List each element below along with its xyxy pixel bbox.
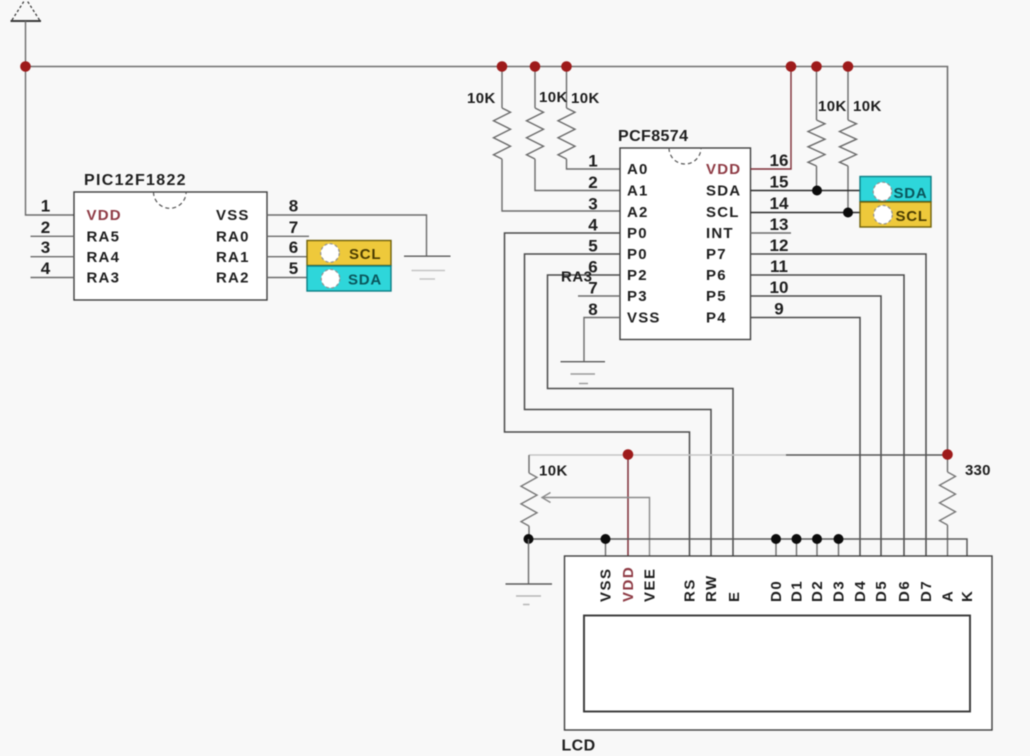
svg-text:P5: P5: [706, 288, 727, 305]
svg-text:P6: P6: [706, 267, 727, 284]
svg-text:A: A: [940, 590, 957, 602]
svg-text:3: 3: [41, 238, 50, 257]
svg-text:D0: D0: [768, 580, 785, 602]
svg-text:PCF8574: PCF8574: [618, 128, 688, 145]
svg-text:SDA: SDA: [706, 183, 741, 200]
svg-text:12: 12: [770, 236, 789, 255]
svg-text:RS: RS: [682, 578, 699, 602]
svg-text:VSS: VSS: [598, 567, 615, 602]
svg-text:RA5: RA5: [87, 229, 121, 246]
svg-text:10K: 10K: [571, 90, 600, 107]
svg-text:11: 11: [770, 257, 788, 276]
svg-text:14: 14: [770, 194, 789, 213]
svg-text:15: 15: [770, 173, 789, 192]
svg-text:A1: A1: [627, 183, 649, 200]
svg-text:INT: INT: [706, 225, 734, 242]
svg-text:2: 2: [588, 173, 597, 192]
svg-text:D3: D3: [831, 580, 848, 602]
svg-text:VDD: VDD: [706, 161, 741, 178]
svg-text:10K: 10K: [539, 463, 568, 480]
svg-text:5: 5: [289, 259, 298, 278]
svg-text:4: 4: [588, 216, 598, 235]
svg-text:VSS: VSS: [216, 207, 250, 224]
svg-text:P0: P0: [627, 246, 648, 263]
svg-text:8: 8: [588, 300, 597, 319]
svg-text:5: 5: [588, 237, 597, 256]
svg-text:10K: 10K: [467, 90, 496, 107]
svg-text:10K: 10K: [853, 98, 882, 115]
svg-text:D2: D2: [809, 580, 826, 602]
svg-text:VDD: VDD: [87, 207, 122, 224]
svg-text:8: 8: [289, 197, 298, 216]
svg-text:16: 16: [770, 151, 789, 170]
svg-text:D7: D7: [918, 580, 935, 602]
svg-text:10: 10: [770, 278, 789, 297]
svg-text:3: 3: [588, 195, 597, 214]
svg-text:7: 7: [289, 218, 298, 237]
svg-text:D1: D1: [789, 580, 806, 602]
svg-text:10K: 10K: [818, 98, 847, 115]
svg-text:1: 1: [588, 152, 597, 171]
svg-text:SCL: SCL: [896, 208, 928, 225]
svg-text:SDA: SDA: [348, 272, 382, 289]
svg-text:2: 2: [41, 218, 50, 237]
svg-text:SDA: SDA: [894, 185, 928, 202]
svg-text:10K: 10K: [539, 89, 568, 106]
svg-text:VEE: VEE: [642, 567, 659, 602]
svg-text:E: E: [726, 590, 743, 602]
svg-text:A2: A2: [627, 204, 649, 221]
svg-text:RA3: RA3: [87, 270, 121, 287]
svg-text:P7: P7: [706, 246, 727, 263]
svg-text:RW: RW: [703, 574, 720, 602]
svg-text:SCL: SCL: [706, 204, 740, 221]
svg-text:330: 330: [965, 462, 991, 479]
svg-text:LCD: LCD: [562, 738, 596, 755]
svg-text:D5: D5: [873, 580, 890, 602]
svg-text:K: K: [959, 590, 976, 602]
svg-text:P4: P4: [706, 310, 727, 327]
svg-text:D6: D6: [896, 580, 913, 602]
svg-text:6: 6: [289, 238, 298, 257]
svg-text:VDD: VDD: [620, 566, 637, 602]
svg-text:D4: D4: [852, 580, 869, 602]
svg-text:SCL: SCL: [349, 246, 381, 263]
svg-text:9: 9: [774, 300, 783, 319]
svg-text:RA1: RA1: [216, 249, 250, 266]
svg-text:13: 13: [770, 215, 789, 234]
svg-text:1: 1: [41, 197, 50, 216]
svg-text:P0: P0: [627, 225, 648, 242]
svg-text:P3: P3: [627, 288, 648, 305]
svg-text:RA3: RA3: [561, 269, 593, 286]
svg-text:VSS: VSS: [627, 310, 661, 327]
svg-text:RA0: RA0: [216, 229, 250, 246]
svg-text:4: 4: [41, 259, 51, 278]
svg-text:PIC12F1822: PIC12F1822: [84, 172, 187, 189]
svg-text:P2: P2: [627, 267, 648, 284]
svg-text:RA4: RA4: [87, 249, 121, 266]
svg-text:RA2: RA2: [216, 270, 250, 287]
svg-text:A0: A0: [627, 161, 649, 178]
